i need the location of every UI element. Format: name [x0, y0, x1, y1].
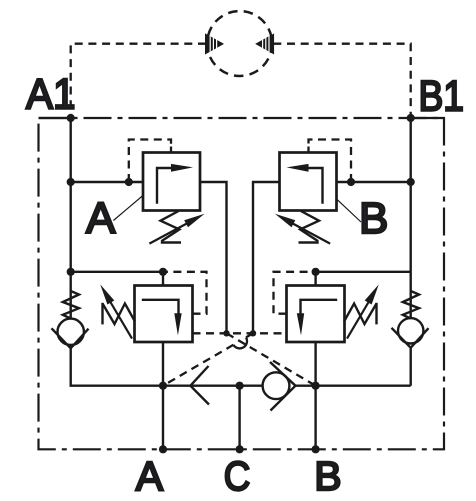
check valve on bottom rail: seat [270, 362, 296, 411]
check valve on A1 column: ball [57, 319, 83, 345]
wire: pilot valve B right port to B1 [337, 181, 411, 183]
relief valve B adjustable spring [300, 211, 319, 241]
check seat symbol on bottom rail (port A side) [190, 366, 209, 405]
boundary corner solid segment top-left [39, 117, 71, 119]
relief valve A pilot line (dashed) [129, 140, 171, 183]
counterbalance valve A internal arrow [142, 300, 179, 314]
svg-text:A1: A1 [26, 71, 76, 119]
counterbalance valve B spring (adjustable) [344, 304, 376, 325]
counterbalance valve A pilot line (dashed) [163, 272, 207, 314]
junction node rail/port C [236, 382, 244, 390]
port node A [159, 445, 167, 453]
relief valve B square [280, 153, 337, 211]
wire: port B drop [314, 342, 316, 449]
wire: pilot valve A right port down to drain node [200, 182, 227, 333]
wire: port C drop [238, 386, 240, 450]
wire: right column below check valve [410, 346, 412, 386]
relief valve A adjustable spring [161, 211, 180, 241]
wire: dashed motor line right (motor to B1) [273, 44, 410, 118]
relief valve A square [143, 153, 200, 211]
svg-text:A: A [86, 194, 116, 243]
wire: left column A1 down [69, 118, 71, 319]
motor flow triangle right [255, 30, 274, 58]
junction node counterbalance A top [159, 268, 167, 276]
wire: down to counterbalance valve B top [314, 272, 316, 286]
svg-text:B1: B1 [419, 73, 465, 121]
wire: A1 branch to y=272 rail left [71, 271, 163, 273]
junction node drain A [223, 330, 229, 336]
counterbalance valve B square [287, 286, 345, 343]
junction node counterbalance B top [312, 268, 320, 276]
relief valve A internal arrow [157, 168, 172, 204]
counterbalance valve A spring (adjustable) [103, 304, 135, 325]
junction node A1 column mid [67, 268, 75, 276]
junction node B1 top [407, 114, 415, 122]
wire: y=272 rail right to B1 column [316, 271, 411, 273]
crossed pilot line (dashed) B-side to A port with hop [246, 333, 253, 337]
boundary corner solid segment top-right [411, 117, 444, 119]
junction node B1/valve B [407, 178, 415, 186]
check valve on B1 column: seat [392, 328, 429, 348]
counterbalance valve B internal arrow [301, 300, 338, 314]
check valve on A1 column: seat [52, 328, 89, 348]
wire: down to counterbalance valve A top [162, 272, 164, 286]
relief valve B pilot line (dashed) [309, 140, 352, 183]
relief valve B internal arrow [308, 168, 323, 204]
counterbalance valve B pilot line (dashed) [274, 272, 316, 314]
motor flow triangle left [205, 30, 224, 58]
svg-text:B: B [314, 453, 341, 499]
label A leader line [113, 195, 143, 221]
drain gallery dashed line between counterbalance valves [193, 332, 287, 334]
wire: bottom rail right of center check valve [296, 385, 411, 387]
check valve on bottom rail: ball [263, 372, 290, 399]
subplate boundary (dash-dot rectangle) [39, 118, 445, 449]
junction node A1 top [67, 114, 75, 122]
junction node drain B [250, 330, 256, 336]
svg-text:C: C [224, 453, 251, 499]
check valve on B1 column: ball [398, 318, 423, 343]
wire: port A drop [162, 342, 164, 449]
svg-text:B: B [359, 194, 388, 243]
check valve on B1 column: spring [403, 291, 419, 319]
wire: right column B1 down [410, 118, 412, 319]
port node C [236, 445, 244, 453]
junction node A1/valve A [67, 178, 75, 186]
check valve on A1 column: spring [63, 291, 79, 319]
crossed pilot line (dashed) A-side to B port [227, 333, 316, 385]
junction node rail/port B [312, 382, 320, 390]
svg-text:A: A [136, 453, 164, 499]
junction node rail/port A [159, 382, 167, 390]
label B leader line [337, 199, 362, 222]
counterbalance valve A square [135, 286, 193, 343]
wire: dashed motor line left (A1 to motor) [71, 44, 206, 118]
hydraulic motor M (dashed circle) [207, 11, 272, 76]
port node B [312, 445, 320, 453]
wire: pilot valve B left port down to drain node [253, 182, 280, 333]
junction node pilot A tap [125, 178, 133, 186]
wire: left column below check valve to bottom rail [71, 346, 263, 386]
junction node pilot B tap [347, 178, 355, 186]
wire: A1 to pilot valve A left port [71, 181, 143, 183]
